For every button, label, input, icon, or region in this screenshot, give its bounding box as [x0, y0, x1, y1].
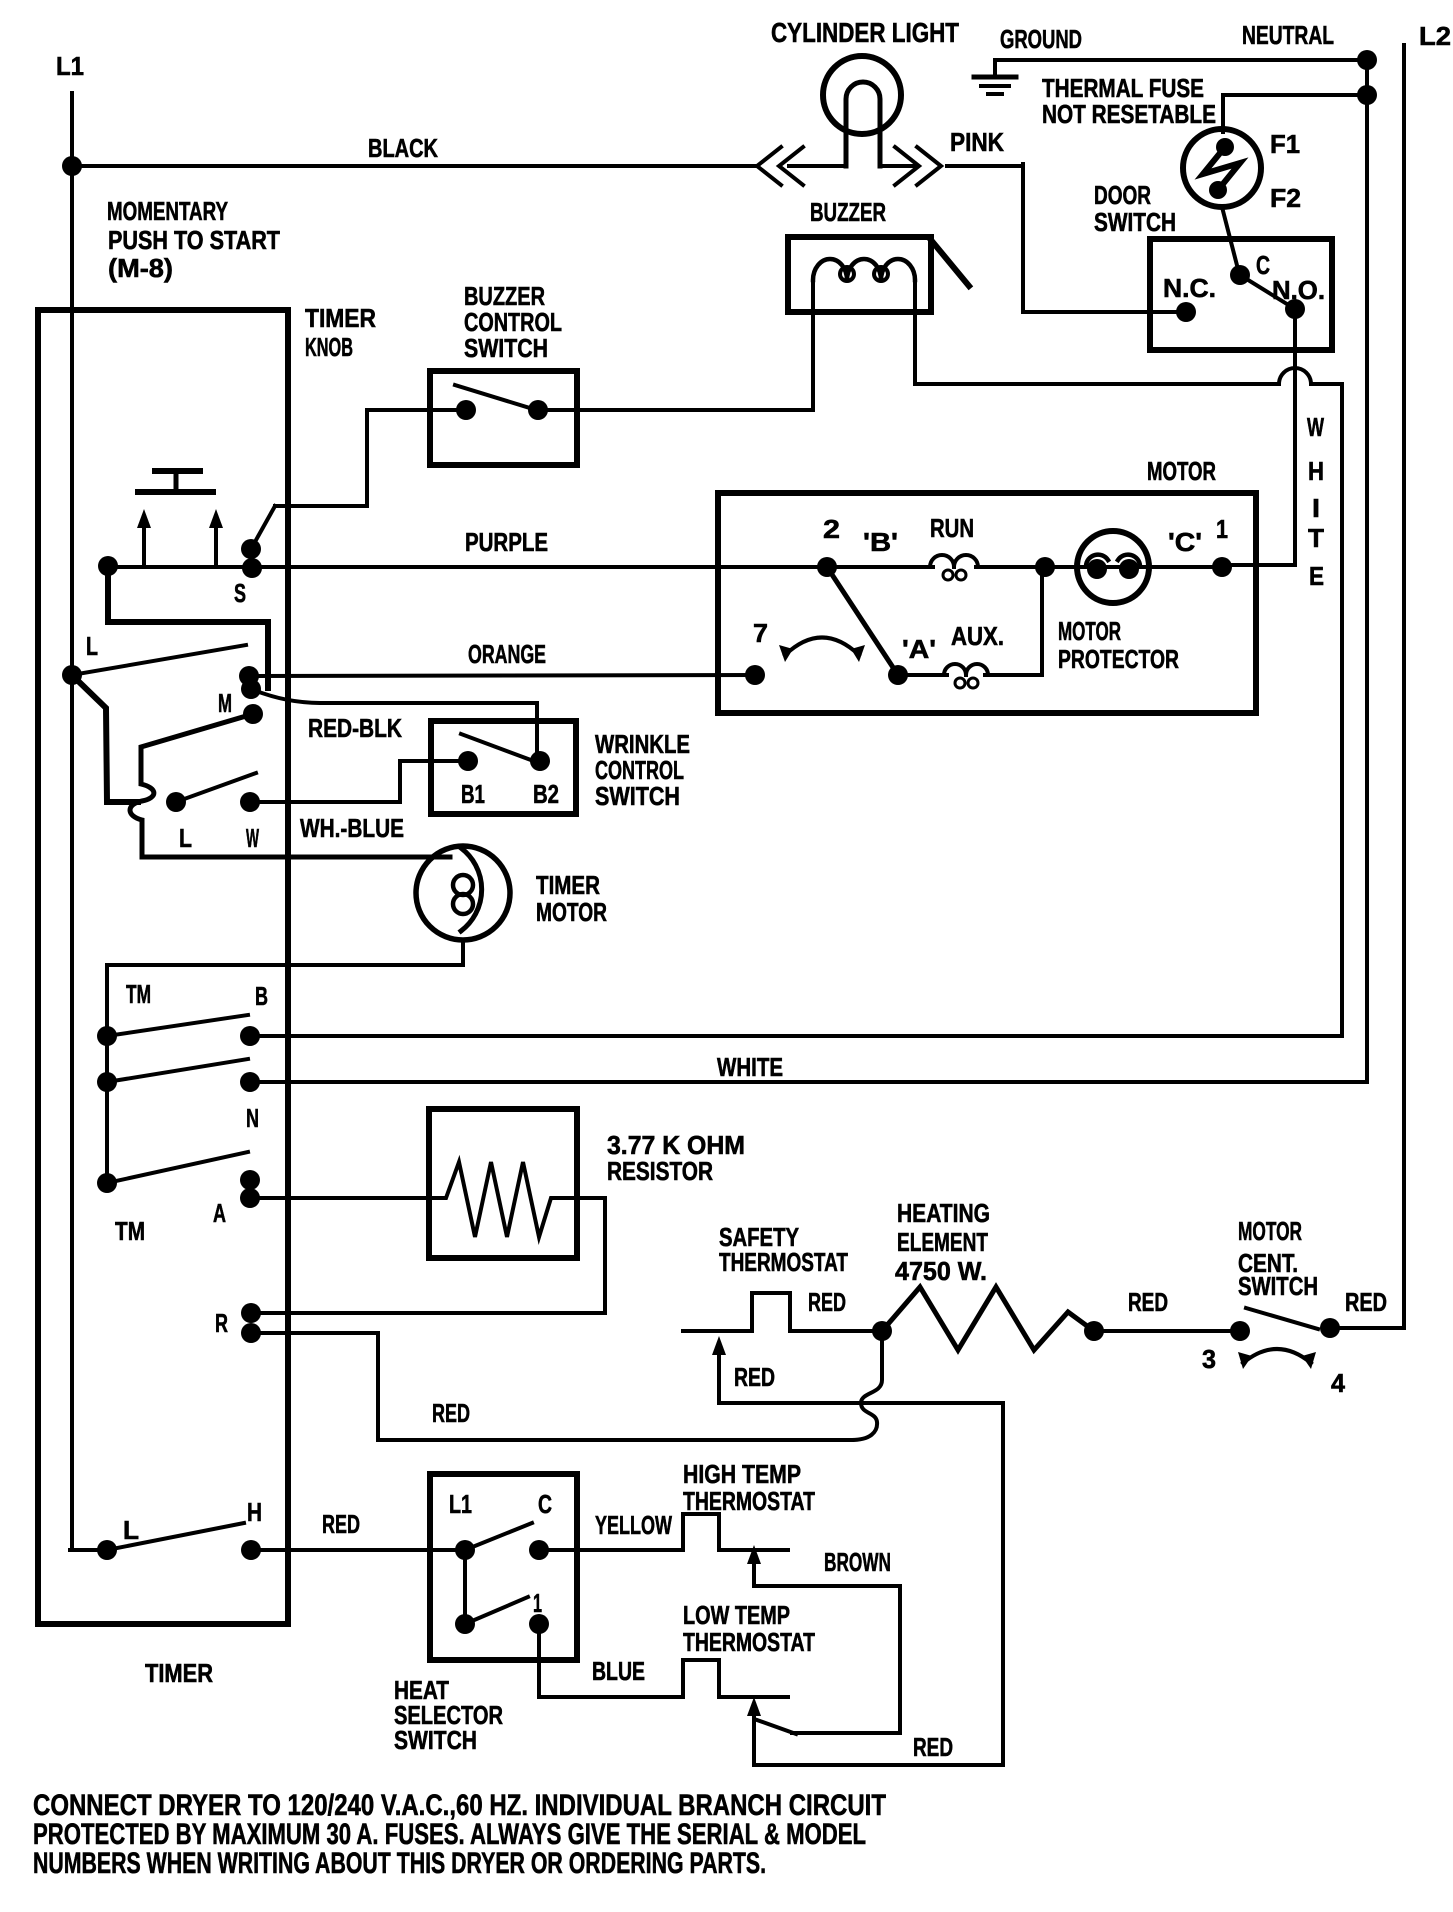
- svg-text:F1: F1: [1270, 129, 1300, 159]
- svg-text:MOTOR: MOTOR: [1058, 616, 1121, 646]
- svg-text:'C': 'C': [1168, 527, 1202, 557]
- svg-text:W: W: [246, 823, 259, 853]
- svg-text:CYLINDER LIGHT: CYLINDER LIGHT: [771, 17, 959, 48]
- svg-text:N: N: [246, 1103, 259, 1133]
- svg-text:T: T: [1308, 523, 1324, 553]
- svg-text:THERMOSTAT: THERMOSTAT: [683, 1627, 815, 1657]
- svg-text:N.C.: N.C.: [1163, 273, 1216, 303]
- svg-text:SWITCH: SWITCH: [394, 1725, 477, 1755]
- svg-text:ELEMENT: ELEMENT: [897, 1227, 988, 1257]
- svg-text:E: E: [1309, 561, 1324, 591]
- svg-text:B: B: [255, 981, 268, 1011]
- svg-text:RED: RED: [432, 1398, 470, 1428]
- svg-text:NOT RESETABLE: NOT RESETABLE: [1042, 99, 1216, 129]
- svg-text:R: R: [215, 1308, 228, 1338]
- svg-text:H: H: [247, 1497, 262, 1527]
- svg-text:BLACK: BLACK: [368, 133, 438, 163]
- svg-text:THERMOSTAT: THERMOSTAT: [719, 1247, 848, 1277]
- svg-text:SWITCH: SWITCH: [1238, 1271, 1318, 1301]
- svg-text:F2: F2: [1270, 183, 1301, 213]
- svg-text:RED: RED: [1128, 1287, 1168, 1317]
- svg-text:TM: TM: [115, 1216, 145, 1246]
- svg-text:AUX.: AUX.: [951, 621, 1004, 651]
- svg-text:BROWN: BROWN: [824, 1547, 891, 1577]
- svg-text:7: 7: [753, 618, 768, 648]
- svg-text:H: H: [1308, 456, 1324, 486]
- svg-text:YELLOW: YELLOW: [595, 1510, 672, 1540]
- svg-text:(M-8): (M-8): [108, 253, 173, 283]
- svg-text:NEUTRAL: NEUTRAL: [1242, 20, 1334, 50]
- svg-text:RED-BLK: RED-BLK: [308, 713, 402, 743]
- svg-text:MOTOR: MOTOR: [536, 897, 607, 927]
- svg-text:BLUE: BLUE: [592, 1656, 645, 1686]
- svg-text:SWITCH: SWITCH: [595, 781, 680, 811]
- svg-text:SWITCH: SWITCH: [1094, 207, 1176, 237]
- svg-text:A: A: [213, 1198, 226, 1228]
- svg-text:MOTOR: MOTOR: [1147, 456, 1216, 486]
- svg-text:RED: RED: [734, 1362, 775, 1392]
- svg-text:DOOR: DOOR: [1094, 180, 1151, 210]
- svg-text:WHITE: WHITE: [717, 1052, 783, 1082]
- svg-text:1: 1: [1216, 514, 1228, 544]
- svg-text:C: C: [1256, 250, 1270, 280]
- svg-text:THERMOSTAT: THERMOSTAT: [683, 1486, 815, 1516]
- svg-text:RESISTOR: RESISTOR: [607, 1156, 713, 1186]
- svg-text:HIGH TEMP: HIGH TEMP: [683, 1459, 801, 1489]
- svg-text:RED: RED: [1345, 1287, 1387, 1317]
- svg-text:L2: L2: [1419, 21, 1451, 51]
- svg-text:L1: L1: [449, 1489, 472, 1519]
- svg-text:I: I: [1312, 493, 1320, 523]
- svg-text:NUMBERS WHEN WRITING ABOUT THI: NUMBERS WHEN WRITING ABOUT THIS DRYER OR…: [33, 1847, 766, 1880]
- svg-text:PROTECTOR: PROTECTOR: [1058, 644, 1179, 674]
- svg-text:PURPLE: PURPLE: [465, 527, 548, 557]
- svg-text:4750 W.: 4750 W.: [895, 1256, 987, 1286]
- svg-text:GROUND: GROUND: [1000, 24, 1082, 54]
- svg-text:MOMENTARY: MOMENTARY: [107, 196, 228, 226]
- svg-text:S: S: [234, 578, 246, 608]
- svg-text:2: 2: [823, 514, 840, 544]
- svg-text:B2: B2: [533, 779, 559, 809]
- svg-text:PINK: PINK: [950, 127, 1004, 157]
- svg-text:B1: B1: [461, 779, 485, 809]
- svg-text:HEATING: HEATING: [897, 1198, 990, 1228]
- svg-text:L: L: [86, 631, 98, 661]
- svg-text:TIMER: TIMER: [536, 870, 600, 900]
- svg-text:L: L: [123, 1515, 139, 1545]
- svg-text:PUSH TO START: PUSH TO START: [108, 225, 280, 255]
- svg-text:TIMER: TIMER: [305, 303, 376, 333]
- svg-text:3: 3: [1202, 1344, 1216, 1374]
- svg-text:L1: L1: [56, 51, 84, 81]
- svg-text:C: C: [538, 1489, 552, 1519]
- svg-text:'A': 'A': [902, 634, 936, 664]
- svg-text:MOTOR: MOTOR: [1238, 1216, 1302, 1246]
- svg-text:WH.-BLUE: WH.-BLUE: [300, 813, 404, 843]
- svg-text:TM: TM: [126, 979, 151, 1009]
- svg-text:M: M: [218, 688, 232, 718]
- svg-text:RED: RED: [913, 1732, 953, 1762]
- svg-text:TIMER: TIMER: [145, 1658, 213, 1688]
- svg-text:'B': 'B': [863, 527, 898, 557]
- svg-text:LOW TEMP: LOW TEMP: [683, 1600, 790, 1630]
- svg-text:ORANGE: ORANGE: [468, 639, 546, 669]
- svg-text:KNOB: KNOB: [305, 332, 353, 362]
- svg-text:W: W: [1307, 412, 1324, 442]
- svg-text:1: 1: [533, 1588, 542, 1618]
- svg-text:RUN: RUN: [930, 513, 974, 543]
- svg-text:N.O.: N.O.: [1272, 275, 1325, 305]
- svg-text:BUZZER: BUZZER: [810, 197, 886, 227]
- svg-text:RED: RED: [322, 1509, 360, 1539]
- svg-text:SWITCH: SWITCH: [464, 333, 548, 363]
- svg-text:L: L: [179, 823, 192, 853]
- svg-text:4: 4: [1331, 1368, 1346, 1398]
- svg-text:RED: RED: [808, 1287, 846, 1317]
